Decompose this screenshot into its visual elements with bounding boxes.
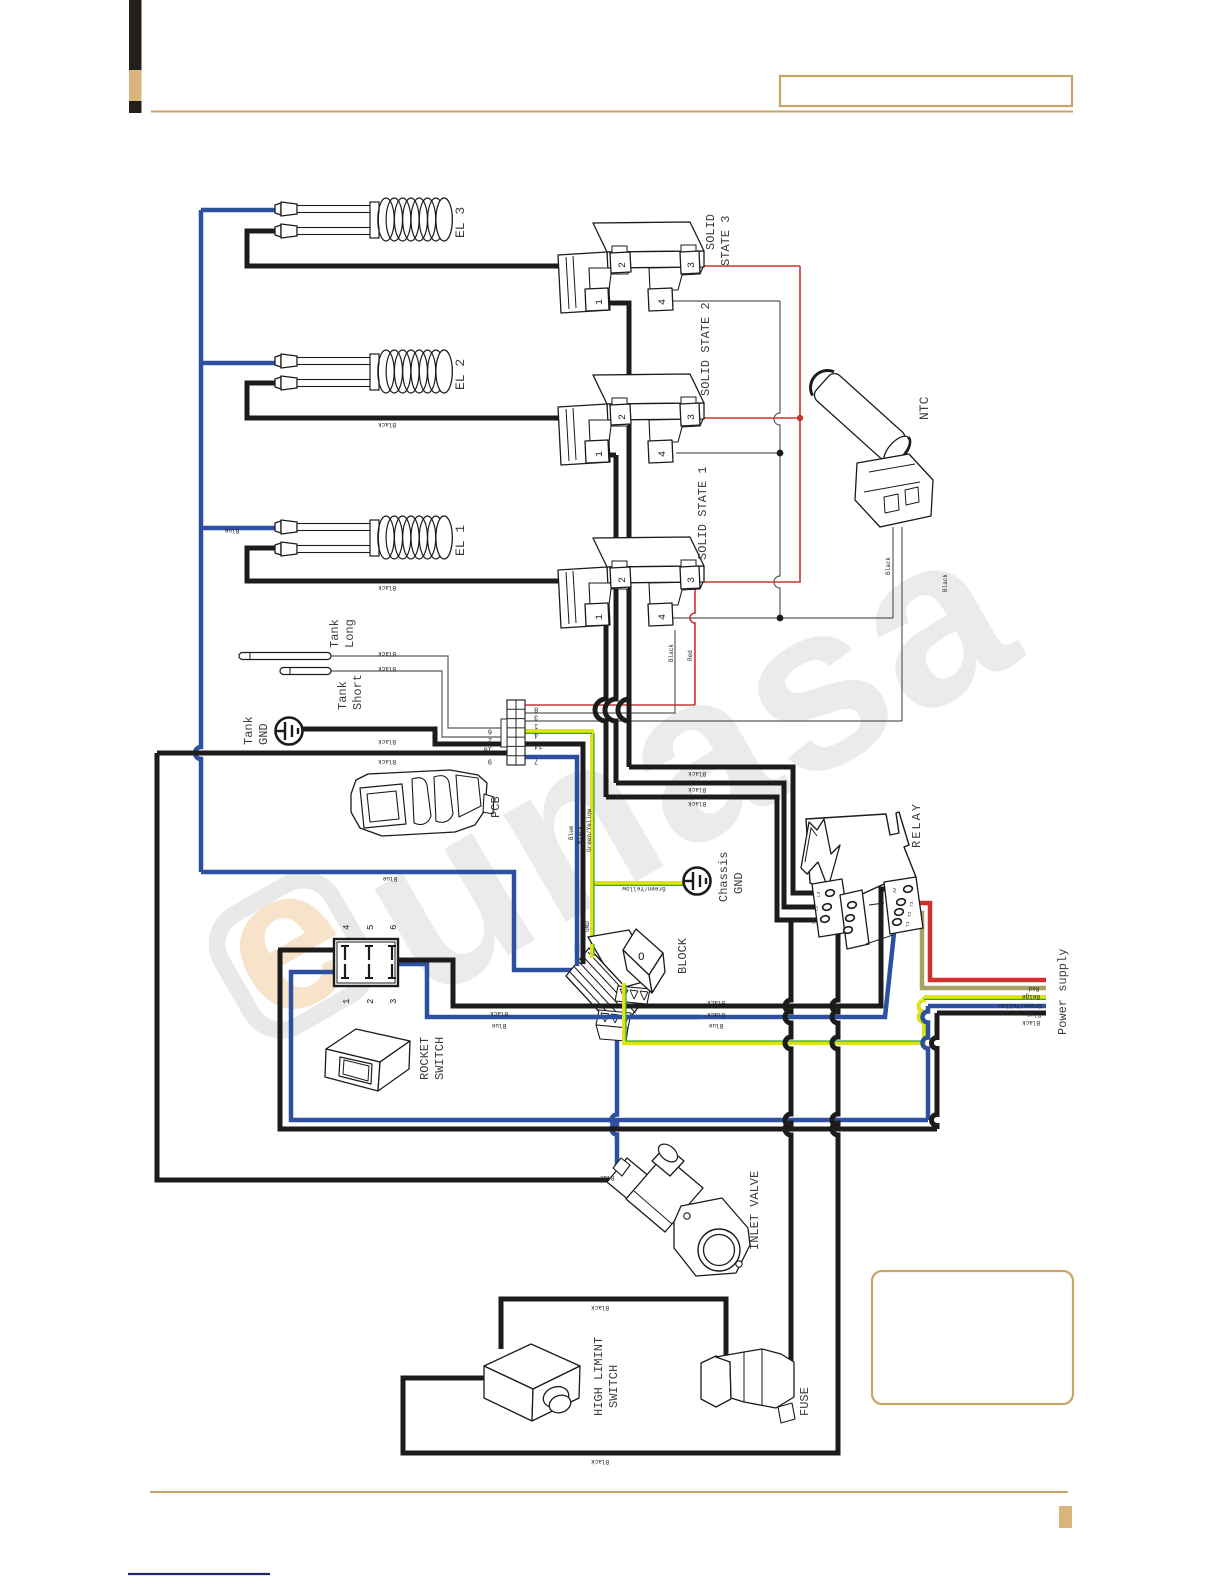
svg-text:Black: Black: [378, 665, 396, 672]
svg-text:Red: Red: [1028, 985, 1039, 992]
svg-text:SOLID: SOLID: [704, 214, 718, 250]
svg-text:SOLID STATE 2: SOLID STATE 2: [699, 302, 713, 396]
svg-text:Black: Black: [378, 584, 396, 591]
svg-text:4: 4: [658, 451, 669, 457]
svg-text:Red: Red: [687, 650, 694, 661]
svg-text:RELAY: RELAY: [910, 802, 924, 848]
svg-text:Black: Black: [707, 1011, 725, 1018]
svg-text:4: 4: [534, 731, 538, 739]
svg-text:Black: Black: [378, 758, 396, 765]
svg-text:1: 1: [595, 451, 606, 457]
svg-text:Long: Long: [343, 619, 357, 648]
svg-text:T1: T1: [905, 921, 911, 927]
svg-text:L1: L1: [811, 918, 817, 924]
svg-text:4: 4: [658, 614, 669, 620]
svg-text:Black: Black: [378, 738, 396, 745]
svg-text:SOLID STATE 1: SOLID STATE 1: [696, 466, 710, 560]
svg-text:Black: Black: [668, 644, 675, 662]
svg-text:Black: Black: [688, 770, 706, 777]
svg-text:GND: GND: [257, 723, 271, 745]
svg-text:2: 2: [618, 577, 629, 583]
svg-text:Blue: Blue: [224, 527, 239, 534]
svg-text:14: 14: [534, 742, 542, 750]
svg-text:Blue: Blue: [568, 825, 575, 840]
svg-text:L2: L2: [814, 905, 820, 911]
svg-text:5: 5: [366, 925, 376, 930]
svg-text:2: 2: [488, 736, 492, 744]
svg-text:1: 1: [595, 614, 606, 620]
svg-text:Blue: Blue: [599, 1174, 614, 1181]
svg-text:3: 3: [687, 577, 698, 583]
svg-text:Tank: Tank: [242, 716, 256, 745]
svg-text:1: 1: [595, 299, 606, 305]
svg-text:GND: GND: [584, 921, 591, 932]
svg-text:Beige: Beige: [1022, 993, 1040, 1000]
svg-text:Green/Yellow: Green/Yellow: [998, 1002, 1042, 1009]
svg-text:Blue: Blue: [382, 875, 397, 882]
svg-text:Black: Black: [591, 1458, 609, 1465]
svg-text:Black: Black: [688, 800, 706, 807]
svg-text:3: 3: [389, 999, 399, 1004]
svg-text:GND: GND: [732, 872, 746, 894]
svg-text:Chassis: Chassis: [717, 852, 731, 902]
svg-text:ROCKET: ROCKET: [418, 1037, 432, 1080]
svg-text:PCB: PCB: [489, 796, 503, 818]
svg-text:Black: Black: [591, 1304, 609, 1311]
svg-text:SWITCH: SWITCH: [433, 1037, 447, 1080]
svg-text:2: 2: [618, 262, 629, 268]
svg-text:Black: Black: [707, 999, 725, 1006]
svg-text:10: 10: [484, 745, 492, 753]
svg-text:Green/Yellow: Green/Yellow: [586, 808, 593, 852]
svg-text:Tank: Tank: [336, 681, 350, 710]
svg-text:6: 6: [389, 925, 399, 930]
svg-text:6: 6: [488, 727, 492, 735]
svg-text:Tank: Tank: [328, 619, 342, 648]
svg-text:STATE 3: STATE 3: [719, 216, 733, 266]
svg-text:3: 3: [687, 414, 698, 420]
svg-text:SWITCH: SWITCH: [607, 1365, 621, 1408]
svg-text:Blue: Blue: [491, 1022, 506, 1029]
svg-text:Black: Black: [378, 421, 396, 428]
svg-text:Black: Black: [688, 786, 706, 793]
svg-text:FUSE: FUSE: [798, 1387, 812, 1416]
svg-text:T3: T3: [909, 901, 915, 907]
svg-text:BLOCK: BLOCK: [676, 937, 690, 974]
svg-text:Black: Black: [1022, 1019, 1040, 1026]
svg-text:HIGH LIMINT: HIGH LIMINT: [592, 1337, 606, 1416]
svg-text:Power supply: Power supply: [1056, 949, 1070, 1035]
svg-text:8: 8: [534, 705, 538, 713]
svg-text:Blue: Blue: [708, 1022, 723, 1029]
svg-text:O: O: [638, 952, 645, 964]
svg-text:EL 2: EL 2: [453, 359, 468, 390]
svg-text:Green/Yellow: Green/Yellow: [622, 885, 666, 892]
svg-text:2: 2: [618, 414, 629, 420]
svg-text:4: 4: [342, 925, 352, 930]
svg-text:A2: A2: [892, 887, 898, 893]
svg-text:Black: Black: [490, 1010, 508, 1017]
svg-text:EL 1: EL 1: [453, 525, 468, 556]
svg-text:Black: Black: [885, 557, 892, 575]
svg-text:L3: L3: [816, 891, 822, 897]
svg-text:1: 1: [534, 722, 538, 730]
svg-text:2: 2: [366, 999, 376, 1004]
svg-text:1: 1: [342, 999, 352, 1004]
svg-text:3: 3: [687, 262, 698, 268]
svg-text:7: 7: [534, 757, 538, 765]
svg-text:9: 9: [488, 757, 492, 765]
svg-text:INLET VALVE: INLET VALVE: [748, 1171, 762, 1250]
svg-text:Black: Black: [378, 650, 396, 657]
svg-text:NTC: NTC: [917, 396, 932, 420]
svg-text:Blue: Blue: [1026, 1011, 1041, 1018]
svg-text:3: 3: [534, 713, 538, 721]
svg-text:Short: Short: [351, 674, 365, 710]
svg-text:T2: T2: [907, 911, 913, 917]
svg-text:Black: Black: [577, 826, 584, 844]
svg-text:Black: Black: [942, 574, 949, 592]
svg-text:EL 3: EL 3: [453, 207, 468, 238]
svg-text:4: 4: [658, 299, 669, 305]
